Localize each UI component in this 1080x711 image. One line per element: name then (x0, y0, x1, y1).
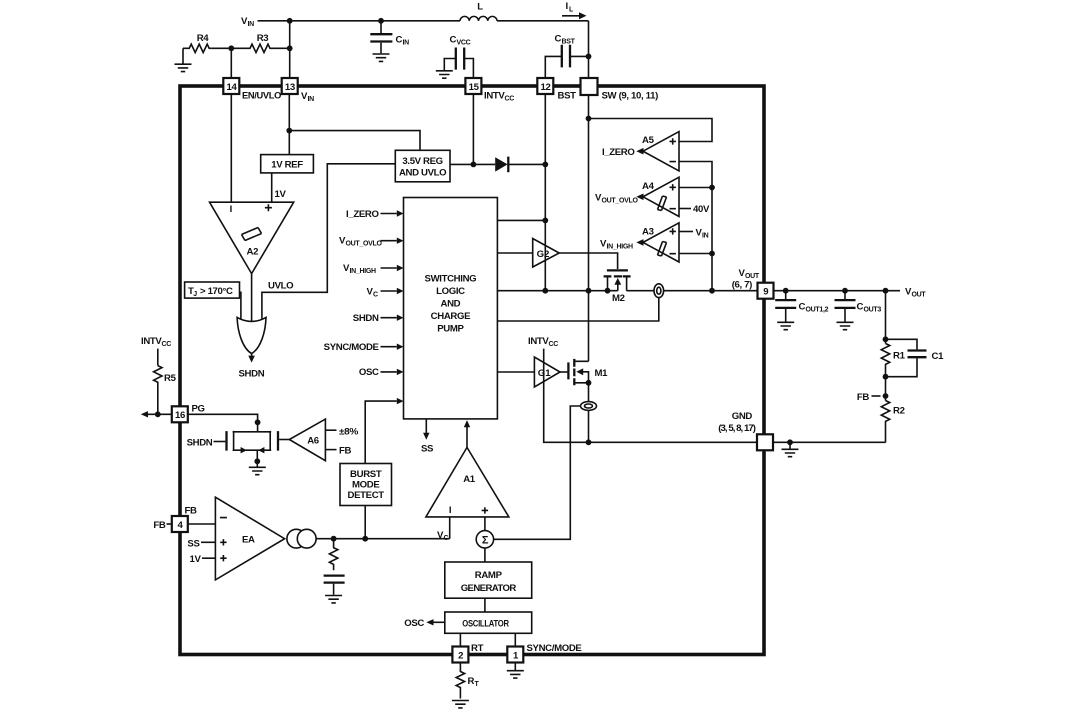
node VIN label (241, 16, 254, 28)
node VIN ref label (696, 227, 709, 239)
wire L to SW pin (588, 21, 590, 78)
svg-text:OSC: OSC (359, 367, 379, 378)
svg-text:I_ZERO: I_ZERO (602, 147, 635, 158)
arrow SS output below block (425, 419, 427, 433)
wire A1 plus to summer (484, 517, 486, 531)
svg-text:16: 16 (175, 410, 185, 421)
wire FB label to pin 4 (167, 523, 172, 525)
inductor L (460, 16, 497, 20)
wire pin13 VIN column inside (288, 94, 290, 155)
svg-text:PUMP: PUMP (437, 324, 464, 335)
svg-text:C: C (450, 35, 457, 46)
arrow A4 output VOUT_OVLO (636, 194, 643, 201)
junction M1 return / GND row (586, 439, 592, 445)
ground CIN (373, 54, 390, 61)
capacitor compensation (324, 576, 345, 583)
wire UVLO from 3.5V REG to OR gate (262, 164, 395, 319)
svg-text:IN: IN (403, 40, 410, 47)
wire FB label stub (872, 395, 881, 397)
wire A5 minus to VOUT sense column (679, 162, 712, 291)
capacitor CVCC (450, 35, 471, 47)
wire SYNC/MODE input arrow (381, 346, 397, 348)
wire VC input arrow (381, 290, 397, 292)
svg-text:A4: A4 (642, 181, 655, 192)
arrow IL (566, 1, 575, 14)
current mirror EA output (287, 529, 306, 548)
wire 1V stub (202, 557, 215, 559)
current sensor M1 (581, 402, 597, 411)
wire A3 minus to sense column (679, 253, 712, 255)
arrow OR output (251, 354, 253, 356)
wire oscillator to pin 1 (514, 633, 516, 646)
svg-text:R3: R3 (257, 33, 269, 44)
wire M1 sensor to GND row (588, 410, 590, 442)
ground CVCC (436, 71, 453, 78)
svg-text:MODE: MODE (352, 480, 380, 491)
ground external (789, 442, 791, 448)
capacitor CBST (555, 34, 576, 46)
wire SS stub (201, 541, 215, 543)
junction R3/VIN column (287, 45, 293, 51)
pin 4 FB (172, 516, 188, 532)
capacitor COUT1,2 (785, 291, 787, 299)
summer sigma (476, 531, 493, 548)
comparator A3 (643, 223, 679, 262)
ground pin 1 (514, 663, 516, 671)
wire M2 sensor return to logic (497, 298, 658, 321)
pin 1 SYNC/MODE (507, 647, 523, 663)
wire A3 plus to VIN ref (679, 231, 693, 233)
node INTVCC label above G1 (528, 336, 558, 348)
gate driver G1 (534, 357, 560, 387)
junction BST/G2 supply (542, 218, 548, 224)
svg-text:40V: 40V (693, 204, 710, 215)
pin GND (3,5,8,17) (757, 434, 773, 450)
pin 14 EN/UVLO (223, 78, 239, 94)
svg-text:2: 2 (458, 650, 463, 661)
comparator A5 (643, 132, 679, 171)
wire pin15 to INTVCC node (472, 94, 474, 164)
wire SW column into IC (588, 95, 590, 291)
wire to 3.5V REG top (289, 131, 420, 151)
svg-text:SHDN: SHDN (353, 313, 379, 324)
svg-text:OUT: OUT (912, 292, 927, 299)
svg-text:I_ZERO: I_ZERO (346, 209, 379, 220)
svg-text:CC: CC (162, 341, 172, 348)
wire A6 output to right gate (279, 439, 289, 441)
wire sensor tap to summer (494, 406, 581, 539)
svg-text:SW (9, 10, 11): SW (9, 10, 11) (602, 90, 659, 101)
junction R4/R3/pin14 (228, 45, 234, 51)
wire R4-R3 node to EN/UVLO pin (211, 48, 248, 78)
svg-text:C: C (373, 291, 378, 298)
svg-text:EA: EA (242, 535, 255, 546)
junction feedback divider top (883, 288, 889, 294)
junction CBST/SW column (586, 54, 592, 60)
capacitor C1 (886, 339, 918, 376)
svg-text:SHDN: SHDN (187, 438, 213, 449)
resistor compensation (329, 539, 337, 571)
resistor R1 (881, 344, 889, 377)
block 3.5V REG AND UVLO (395, 150, 450, 182)
svg-text:1V REF: 1V REF (271, 159, 303, 170)
junction VIN/pin13 (287, 18, 293, 24)
transistor pair PG pull-down (233, 431, 272, 451)
svg-text:C: C (857, 302, 864, 313)
svg-text:CHARGE: CHARGE (431, 311, 471, 322)
svg-text:CC: CC (505, 96, 515, 103)
wire VOUT_OVLO input arrow (381, 240, 397, 242)
svg-text:A2: A2 (247, 247, 259, 258)
wire to FB node (885, 377, 887, 401)
wire logic/VC row to M2 (497, 290, 617, 292)
pin 13 VIN (282, 78, 298, 94)
svg-text:J: J (193, 291, 197, 298)
svg-text:M1: M1 (595, 368, 609, 379)
wire pin16 to PG pull-down pair (188, 414, 258, 431)
junction sense column / VOUT rail (709, 288, 715, 294)
wire R3 to VIN column (289, 21, 291, 78)
junction VIN/CIN (378, 18, 384, 24)
svg-text:IN: IN (308, 96, 315, 103)
junction A3 minus (709, 251, 715, 257)
wire GND pin to divider (773, 441, 886, 443)
pin 15 INTVCC (465, 78, 481, 94)
svg-text:OSC: OSC (404, 618, 424, 629)
svg-text:C: C (799, 302, 806, 313)
junction burst/VC row (362, 536, 368, 542)
wire G1 supply rail INTVCC to GND row (544, 349, 757, 443)
svg-text:BURST: BURST (350, 469, 382, 480)
ground R4 (175, 64, 192, 71)
svg-text:SS: SS (421, 443, 434, 454)
wire R4 to ground (182, 48, 184, 63)
resistor R5 (154, 366, 162, 414)
ground RT (452, 701, 469, 708)
svg-text:IN_HIGH: IN_HIGH (607, 243, 634, 250)
comparator A2 (210, 202, 294, 273)
wire CVCC left to ground (444, 59, 456, 71)
resistor R4 (183, 44, 211, 52)
svg-text:FB: FB (857, 392, 870, 403)
wire PG pair source to ground (256, 450, 258, 466)
svg-text:OUT_OVLO: OUT_OVLO (602, 198, 639, 205)
wire A6 input 8pct (325, 429, 336, 431)
svg-text:IN_HIGH: IN_HIGH (350, 268, 377, 275)
wire A4 minus to 40V ref (679, 208, 691, 210)
wire VIN_HIGH input arrow (381, 267, 397, 269)
svg-text:±8%: ±8% (339, 426, 359, 437)
svg-text:LOGIC: LOGIC (436, 286, 465, 297)
hysteresis symbol A3 (658, 242, 667, 257)
wire A2 output to OR gate (251, 274, 253, 322)
block 1V REF (261, 155, 314, 173)
wire A1 input I to VC row (449, 517, 451, 539)
wire TJ box to OR gate (240, 292, 241, 319)
svg-text:(3, 5, 8, 17): (3, 5, 8, 17) (718, 423, 755, 434)
svg-text:OSCILLATOR: OSCILLATOR (462, 619, 509, 630)
svg-text:A1: A1 (463, 474, 476, 485)
hysteresis symbol A2 (242, 228, 262, 241)
comparator A6 (289, 419, 325, 461)
svg-text:BST: BST (558, 90, 577, 101)
current sensor M2 (654, 284, 664, 298)
junction PG pair drain (255, 419, 261, 425)
node VOUT_OVLO input label (339, 236, 383, 248)
svg-text:GENERATOR: GENERATOR (461, 583, 517, 594)
comparator A4 (643, 177, 679, 216)
svg-text:1V: 1V (189, 554, 201, 565)
wire BST column (544, 94, 546, 164)
junction R5 / PG wire (155, 411, 161, 417)
svg-text:SHDN: SHDN (239, 369, 265, 380)
svg-text:OUT1,2: OUT1,2 (806, 307, 829, 314)
block oscillator (445, 612, 532, 633)
svg-text:G2: G2 (537, 249, 550, 260)
svg-text:OUT_OVLO: OUT_OVLO (346, 241, 383, 248)
node VOUT label right (905, 287, 926, 299)
svg-text:R: R (468, 676, 475, 687)
svg-text:INTV: INTV (484, 91, 505, 102)
block TJ>170C (185, 282, 240, 298)
pin 12 BST (537, 78, 553, 94)
wire 1V REF to A2 plus (271, 173, 273, 202)
svg-text:R1: R1 (893, 351, 906, 362)
svg-text:1V: 1V (275, 189, 287, 200)
diode INTVCC-BST (495, 157, 507, 171)
block ramp generator (445, 562, 532, 598)
junction G2 return (542, 288, 548, 294)
block burst mode detect (340, 464, 392, 506)
gate driver G2 (533, 239, 560, 268)
wire pin 4 to EA minus (188, 523, 216, 525)
svg-text:13: 13 (285, 82, 295, 93)
junction A4 plus (709, 185, 715, 191)
svg-text:BST: BST (562, 39, 576, 46)
wire CVCC right to INTVCC pin (464, 59, 473, 79)
svg-text:(6, 7): (6, 7) (732, 280, 752, 291)
svg-text:Σ: Σ (482, 535, 489, 547)
wire OSC input arrow (381, 371, 397, 373)
svg-text:12: 12 (541, 82, 551, 93)
wire I_ZERO input arrow (381, 213, 397, 215)
node INTVCC label (R5 pull-up) (141, 336, 171, 348)
svg-text:C: C (396, 35, 403, 46)
svg-text:A6: A6 (307, 435, 319, 446)
arrow A1 output to logic block (466, 427, 468, 448)
svg-text:RT: RT (471, 643, 484, 654)
wire VC row (316, 538, 450, 540)
svg-text:PG: PG (192, 403, 205, 414)
capacitor CIN (380, 21, 382, 33)
svg-text:INTV: INTV (141, 336, 162, 347)
ground compensation (325, 596, 342, 603)
transistor M1 (567, 362, 569, 379)
svg-text:14: 14 (227, 82, 238, 93)
op-amp A1 (426, 447, 509, 517)
wire SW sense to A5 plus (589, 119, 713, 142)
wire logic to G2 input (497, 252, 532, 254)
svg-text:FB: FB (185, 505, 198, 516)
svg-text:AND UVLO: AND UVLO (399, 168, 447, 179)
wire ramp generator to oscillator (484, 598, 486, 612)
wire A4 plus to sense column (679, 187, 712, 189)
svg-text:3.5V REG: 3.5V REG (402, 156, 442, 167)
junction M2 source stub (605, 288, 611, 294)
wire M2 drain to current sensor (627, 290, 654, 292)
capacitor COUT3 (844, 291, 846, 299)
junction SW/comparator loop (586, 116, 592, 122)
svg-text:FB: FB (153, 520, 166, 531)
svg-text:C: C (555, 34, 562, 45)
pin 16 PG (172, 406, 188, 422)
wire sensor to pin 9 (664, 290, 758, 292)
wire burst detect to VC row (364, 506, 366, 539)
wire INTVCC to R5 (157, 349, 159, 366)
junction VIN column / 3.5V REG branch (286, 128, 292, 134)
svg-text:CC: CC (549, 341, 559, 348)
resistor R3 (248, 44, 290, 52)
hysteresis symbol A4 (658, 196, 667, 211)
svg-text:VCC: VCC (457, 40, 471, 47)
svg-text:OUT3: OUT3 (864, 307, 882, 314)
svg-text:FB: FB (339, 446, 352, 457)
svg-text:UVLO: UVLO (268, 281, 294, 292)
svg-text:IN: IN (248, 21, 255, 28)
svg-text:A3: A3 (642, 227, 654, 238)
svg-text:EN/UVLO: EN/UVLO (242, 90, 282, 101)
wire M1 source to sensor (588, 383, 590, 402)
arrow A5 output I_ZERO (636, 148, 643, 155)
junction COUT3 (842, 288, 848, 294)
junction R1/C1 bottom (883, 374, 889, 380)
wire logic to G1 input (497, 371, 534, 373)
node VC input label (366, 286, 378, 298)
svg-text:15: 15 (469, 82, 480, 93)
wire summer to ramp generator (484, 548, 486, 562)
pin 2 RT (452, 647, 468, 663)
svg-text:SWITCHING: SWITCHING (425, 273, 477, 284)
wire G2 supply rail (BST to SW return) (544, 164, 546, 290)
junction diode/BST column (542, 162, 548, 168)
svg-text:SS: SS (187, 538, 200, 549)
wire logic to BST node (497, 219, 545, 221)
junction COUT1,2 (783, 288, 789, 294)
svg-text:M2: M2 (612, 293, 625, 304)
wire 3.5V REG output to diode (450, 163, 495, 165)
wire G2 output to M2 gate (559, 253, 617, 269)
svg-text:A5: A5 (642, 135, 655, 146)
wire SHDN input arrow (381, 317, 397, 319)
wire oscillator to pin 2 (459, 633, 461, 646)
junction FB node (883, 393, 889, 399)
wire divider top (885, 291, 887, 344)
wire pin14 to A2 input I (230, 94, 232, 202)
arrow PG output (147, 413, 172, 415)
junction compensation node (331, 536, 337, 542)
wire SHDN to left gate (214, 441, 226, 443)
wire CBST right to SW column (570, 55, 589, 57)
svg-text:INTV: INTV (528, 336, 549, 347)
wire burst detect to logic block (365, 401, 397, 463)
pin 9 VOUT (758, 283, 774, 299)
svg-text:DETECT: DETECT (348, 490, 385, 501)
gate OR shutdown (237, 317, 266, 353)
svg-text:R4: R4 (197, 33, 210, 44)
svg-text:SYNC/MODE: SYNC/MODE (527, 643, 583, 654)
block switching logic and charge pump (404, 198, 498, 419)
svg-text:SYNC/MODE: SYNC/MODE (324, 342, 380, 353)
node VOUT (6,7) label (738, 268, 759, 280)
wire CBST left to BST pin (545, 56, 562, 78)
junction R1/C1 top (883, 336, 889, 342)
wire G1 output to M1 gate (560, 371, 567, 373)
pin SW (9,10,11) (581, 78, 598, 95)
junction M1 source/body (586, 380, 592, 386)
node VIN_HIGH input label (343, 263, 376, 275)
svg-text:IN: IN (702, 232, 709, 239)
error amplifier EA (215, 497, 284, 580)
svg-text:L: L (477, 2, 483, 13)
IC boundary (180, 86, 764, 655)
arrow A3 output VIN_HIGH (636, 239, 643, 246)
junction INTVCC pin column (471, 162, 477, 168)
wire A6 input FB (325, 449, 336, 451)
svg-text:G1: G1 (538, 368, 551, 379)
node VC label (437, 530, 449, 542)
wire SW column to M1 drain (588, 291, 590, 362)
junction SW column / M2 row (586, 288, 592, 294)
svg-text:> 170°C: > 170°C (200, 286, 233, 297)
wire pin 9 to VOUT (774, 290, 901, 292)
svg-text:AND: AND (441, 299, 461, 310)
svg-text:R2: R2 (893, 406, 905, 417)
svg-text:C1: C1 (932, 351, 945, 362)
junction external ground (787, 439, 793, 445)
wire diode to BST column (508, 163, 546, 165)
svg-text:R5: R5 (164, 373, 177, 384)
svg-text:RAMP: RAMP (475, 570, 503, 581)
resistor RT (456, 663, 464, 699)
svg-text:9: 9 (763, 287, 768, 298)
arrow OSC output (434, 621, 445, 623)
wire VIN top rail (258, 20, 589, 22)
transistor M2 (607, 269, 628, 271)
svg-text:GND: GND (732, 411, 753, 422)
resistor R2 (881, 401, 889, 443)
